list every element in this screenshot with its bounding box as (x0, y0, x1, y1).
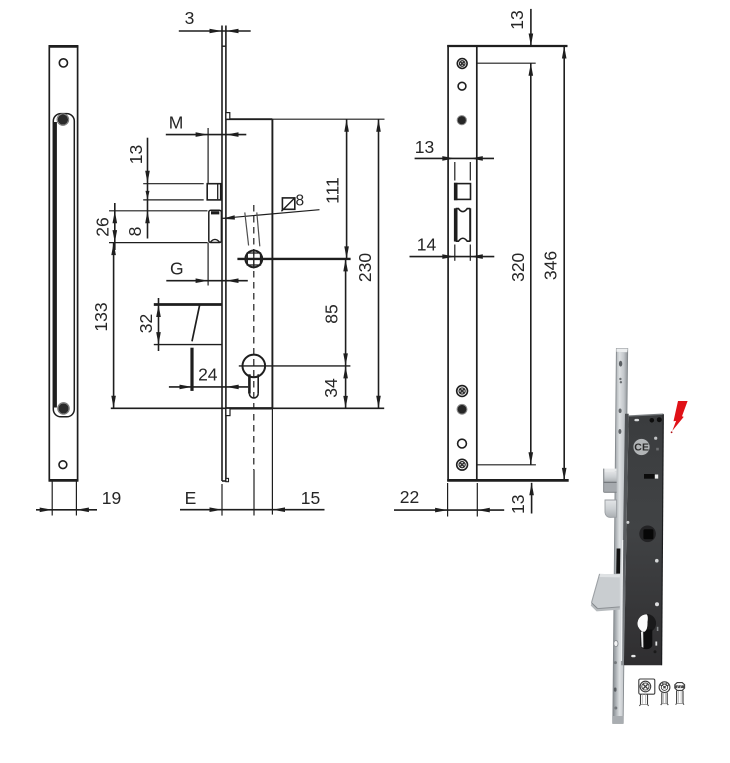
svg-text:13: 13 (507, 10, 527, 29)
svg-text:E: E (185, 488, 197, 508)
svg-text:8: 8 (125, 227, 145, 237)
svg-text:13: 13 (126, 145, 146, 164)
svg-text:13: 13 (508, 495, 528, 514)
svg-text:26: 26 (93, 217, 113, 236)
svg-text:CE: CE (634, 442, 649, 454)
svg-text:M: M (169, 113, 184, 133)
svg-text:230: 230 (355, 253, 375, 282)
svg-text:34: 34 (321, 378, 341, 398)
svg-text:346: 346 (541, 251, 561, 280)
svg-text:85: 85 (322, 304, 342, 323)
svg-text:22: 22 (400, 487, 419, 507)
svg-text:14: 14 (417, 234, 437, 254)
svg-text:24: 24 (198, 365, 218, 385)
svg-text:15: 15 (301, 488, 320, 508)
svg-text:133: 133 (91, 302, 111, 331)
svg-text:3: 3 (185, 8, 195, 28)
svg-text:13: 13 (415, 137, 434, 157)
svg-text:19: 19 (102, 488, 121, 508)
svg-text:8: 8 (295, 192, 304, 209)
svg-text:32: 32 (136, 314, 156, 333)
svg-text:111: 111 (323, 177, 343, 204)
svg-text:320: 320 (508, 252, 528, 281)
svg-text:G: G (170, 259, 184, 279)
